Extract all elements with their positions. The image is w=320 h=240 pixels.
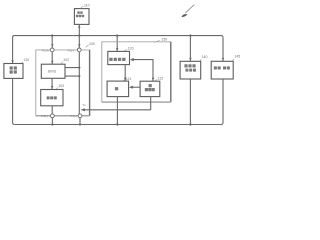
BMS stub wires to P2 line	[65, 68, 79, 77]
svg-text:140: 140	[202, 55, 208, 59]
battery box 103	[41, 90, 63, 106]
top bus	[13, 36, 223, 38]
wire battery down to P3	[51, 106, 53, 114]
text battery	[47, 96, 57, 99]
svg-text:BMS: BMS	[48, 70, 57, 74]
wire box140 down to bottom bus	[189, 79, 191, 125]
box 140 (smart plug)	[180, 61, 201, 79]
bottom bus	[13, 123, 223, 125]
svg-text:103: 103	[58, 84, 64, 88]
label 121	[123, 77, 131, 81]
arrow from controller into switching unit	[133, 60, 153, 82]
svg-text:P3(-): P3(-)	[41, 114, 48, 118]
battery pack box 100	[36, 50, 90, 116]
wire BMS to battery	[51, 78, 53, 89]
terminal P4 bottom of pack	[78, 114, 82, 118]
terminal P3 below battery	[51, 114, 55, 118]
text in box 110	[76, 11, 84, 17]
right unit box 150	[102, 42, 171, 102]
label 122	[155, 77, 163, 81]
label 103	[56, 84, 64, 89]
box 110 (top: remote server)	[74, 9, 89, 25]
lower-right box 122	[140, 81, 160, 96]
svg-text:P2(-): P2(-)	[68, 48, 75, 52]
wire: bus right corner down to box145	[222, 38, 224, 62]
label 140	[200, 55, 208, 61]
label 120	[124, 46, 133, 50]
label 150	[154, 38, 167, 43]
label 102	[61, 58, 69, 63]
wire: bus to box140	[189, 36, 191, 62]
svg-text:122: 122	[158, 77, 164, 81]
junction dots on top bus	[51, 34, 192, 36]
wire: bus left corner down to box130	[12, 38, 14, 64]
svg-text:P1(+): P1(+)	[42, 48, 49, 52]
wire: box110 bottom through bus to P2	[78, 24, 80, 48]
wire: bus to switching unit	[116, 36, 118, 52]
wire P4 to bottom bus	[79, 118, 81, 125]
label 110	[81, 3, 90, 8]
wire box145 down to bottom bus corner	[222, 79, 224, 123]
wire P1 to BMS	[51, 52, 53, 64]
BMS box 102	[41, 64, 65, 78]
svg-text:P4(-): P4(-)	[70, 114, 77, 118]
wire: bus to P1	[51, 36, 53, 49]
svg-text:121: 121	[126, 77, 132, 81]
terminal P1	[50, 48, 54, 52]
label 145	[232, 54, 240, 61]
wire P2 down inside pack to P3	[78, 52, 80, 114]
lower-left box 121	[107, 81, 129, 97]
svg-text:T1: T1	[82, 103, 86, 107]
switching unit box 120	[108, 51, 130, 64]
wire box121 down to bottom bus	[116, 97, 118, 125]
wire switching to lower-left box	[124, 65, 126, 82]
wire box130 down to bottom bus	[12, 78, 14, 122]
box 145 (power socket)	[211, 61, 233, 79]
wire P3 to bottom bus	[51, 118, 53, 125]
junction dots on bottom bus	[51, 123, 191, 125]
svg-text:110: 110	[84, 3, 90, 7]
svg-text:100: 100	[89, 42, 95, 46]
arrowhead	[81, 108, 85, 111]
pen mark (annotation) top right	[181, 5, 194, 17]
wire box122 down to comm line corner	[150, 97, 152, 110]
label 130	[22, 58, 30, 63]
wire arrowheads into boxes	[11, 25, 224, 90]
label 100 of pack	[86, 42, 95, 47]
svg-text:130: 130	[23, 58, 29, 62]
comm line with arrow into pack	[84, 109, 150, 111]
arrow from box122 into box121	[132, 86, 140, 88]
svg-text:145: 145	[234, 54, 240, 58]
box 130 (left)	[4, 64, 23, 79]
terminal P2	[77, 48, 81, 52]
svg-text:120: 120	[128, 46, 134, 50]
svg-text:150: 150	[161, 38, 167, 42]
svg-text:102: 102	[63, 58, 69, 62]
